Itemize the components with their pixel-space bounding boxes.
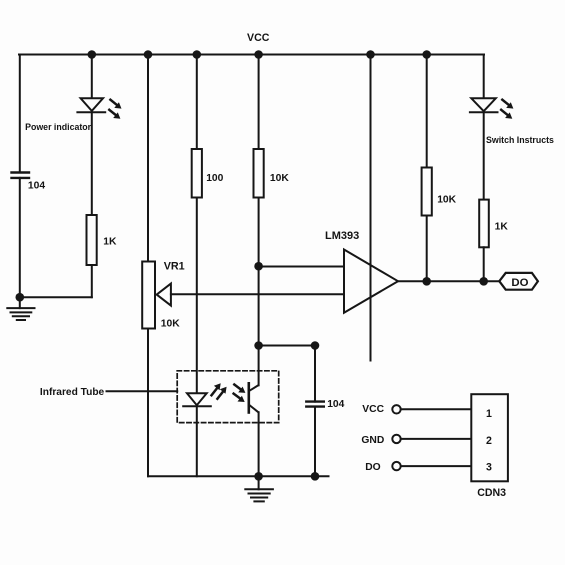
resistor 1K (power LED) <box>87 215 118 265</box>
capacitor 104 (filter) <box>306 399 344 410</box>
wire ground node to 1K bottom <box>20 296 92 298</box>
pin circle DO <box>392 462 400 470</box>
node junction VCC / 10K pull-up branch <box>422 50 431 59</box>
node filter cap top junction <box>311 341 320 350</box>
wire left branch top (VCC corner down to C1) <box>19 55 21 173</box>
svg-text:1K: 1K <box>103 237 117 248</box>
potentiometer VR1 wiper arrow <box>157 284 171 306</box>
node output junction 2 <box>479 277 488 286</box>
wire VCC to VR1 top <box>147 55 149 262</box>
wire R 1K to ground rail <box>91 265 93 297</box>
potentiometer VR1 body <box>142 260 185 329</box>
svg-text:VR1: VR1 <box>164 260 185 272</box>
svg-text:Infrared Tube: Infrared Tube <box>40 387 105 398</box>
connector CDN3 body <box>471 394 508 499</box>
wire switch LED cathode to R 1K <box>483 112 485 199</box>
wire VCC to power LED anode <box>91 55 93 99</box>
node junction VCC / power LED branch <box>88 50 97 59</box>
wire DO pin to connector <box>401 465 471 467</box>
pin circle VCC <box>392 405 400 413</box>
resistor 1K (switch LED) <box>479 200 508 248</box>
capacitor 104 (left) <box>12 173 46 192</box>
node cap / ground rail junction <box>311 472 320 481</box>
wire node B to phototransistor collector <box>258 346 260 386</box>
wire R 1K to output node <box>483 247 485 281</box>
svg-text:DO: DO <box>365 462 380 473</box>
resistor 100 <box>192 149 224 198</box>
wire infrared LED cathode to ground rail <box>196 406 198 476</box>
node B (phototransistor collector junction) <box>254 341 263 350</box>
svg-text:1: 1 <box>486 408 492 420</box>
node output junction 1 <box>422 277 431 286</box>
wire GND pin to connector <box>401 438 471 440</box>
phototransistor (in optocoupler) <box>249 383 258 412</box>
wire VCC pin to connector <box>401 408 471 410</box>
LED infrared emitter (in optocoupler) <box>183 393 211 406</box>
wire phototransistor emitter to ground rail <box>258 412 260 476</box>
wire node A to comparator non-inverting input <box>259 266 344 268</box>
wire C1 bottom to ground node <box>19 178 21 297</box>
svg-text:3: 3 <box>486 461 492 473</box>
node junction VCC / VR1 branch <box>144 50 153 59</box>
pin circle GND <box>392 435 400 443</box>
wire VCC rail <box>19 54 484 56</box>
svg-text:104: 104 <box>327 399 344 410</box>
wire VR1 wiper to comparator inverting input <box>171 293 344 295</box>
wire VCC to R 100 <box>196 55 198 150</box>
svg-text:GND: GND <box>361 435 384 446</box>
wire R 100 to infrared LED anode <box>196 198 198 393</box>
svg-text:2: 2 <box>486 435 492 447</box>
resistor 10K (divider) <box>254 149 290 198</box>
optocoupler IR emission arrows <box>212 383 227 399</box>
node ground rail junction <box>254 472 263 481</box>
node junction VCC / 100 branch <box>193 50 202 59</box>
port DO hexagon <box>499 273 538 290</box>
op-amp U1 LM393 triangle <box>344 250 398 313</box>
svg-text:VCC: VCC <box>247 32 270 44</box>
LED switch indicator <box>470 98 514 118</box>
wire LED cathode to R 1K <box>91 112 93 215</box>
wire VCC corner to switch LED anode <box>483 55 485 99</box>
svg-text:10K: 10K <box>437 194 456 205</box>
node ground-left junction <box>15 293 24 302</box>
svg-text:10K: 10K <box>270 173 289 184</box>
svg-text:100: 100 <box>206 173 223 184</box>
svg-text:1K: 1K <box>495 222 509 233</box>
svg-text:DO: DO <box>511 277 528 289</box>
wire ground rail (bottom) <box>148 475 329 477</box>
ground (bottom) <box>245 476 273 501</box>
LED power indicator <box>77 98 121 118</box>
wire R 10K to node A <box>258 198 260 267</box>
node junction VCC / comparator supply <box>366 50 375 59</box>
svg-text:LM393: LM393 <box>325 230 359 242</box>
svg-text:VCC: VCC <box>362 404 384 415</box>
resistor 10K (pull-up) <box>422 168 457 216</box>
svg-text:Switch Instructs: Switch Instructs <box>486 135 554 145</box>
svg-text:10K: 10K <box>161 319 180 330</box>
wire node A down to node B <box>258 266 260 345</box>
wire VCC to pull-up R 10K <box>426 55 428 168</box>
svg-text:CDN3: CDN3 <box>477 487 506 499</box>
wire comparator output <box>398 280 499 282</box>
wire VR1 bottom to ground rail <box>147 329 149 477</box>
node junction VCC / 10K branch <box>254 50 263 59</box>
svg-text:Power indicator: Power indicator <box>25 122 92 132</box>
optocoupler dashed box <box>177 371 279 423</box>
wire pull-up R 10K to output node <box>426 216 428 282</box>
ground (left) <box>7 297 34 320</box>
wire label pointer to optocoupler box <box>107 390 178 392</box>
svg-text:104: 104 <box>28 181 45 192</box>
wire comparator supply pin <box>370 55 372 361</box>
wire cap top lead <box>314 346 316 402</box>
wire cap bottom lead <box>314 407 316 477</box>
wire VCC to R 10K <box>258 55 260 150</box>
node A (non-inverting input junction) <box>254 262 263 271</box>
optocoupler received-light arrows <box>234 385 246 403</box>
wire node B to filter cap <box>259 345 315 347</box>
